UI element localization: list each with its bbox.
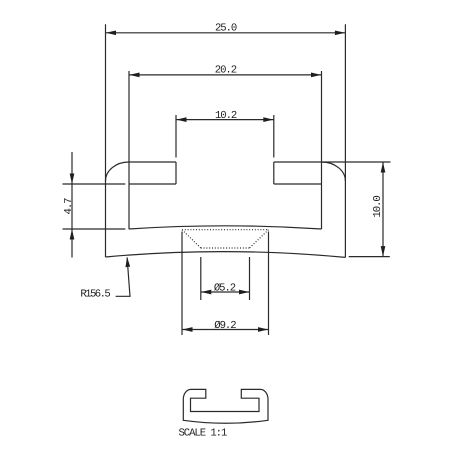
dimension 4.7 line (71, 152, 73, 258)
profile top-left corner arc (106, 162, 129, 181)
arrowhead 25.0 right (335, 30, 345, 35)
profile left outer edge with 25.0 extension line (105, 24, 107, 257)
profile bottom face arc R156.5 (106, 252, 346, 258)
hidden hole top edge (diameter 9.2) dotted (182, 229, 269, 231)
dimension 9.2 extension line left (181, 232, 183, 336)
arrowhead 10.2 left (176, 117, 186, 122)
arrowhead 10.2 right (263, 117, 273, 122)
dimension 20.2 extension line left (128, 71, 130, 184)
profile right lip vertical (273, 162, 275, 184)
svg-text:Ø9.2: Ø9.2 (214, 320, 236, 332)
dimension 10.2 extension line right (273, 115, 275, 158)
dimension 10.2 extension line left (175, 115, 177, 158)
arrowhead 9.2 left (182, 327, 192, 332)
dimension 10.0 line (382, 162, 384, 257)
hidden countersink cone right dotted (250, 230, 269, 248)
dimension 5.2 extension line left (200, 257, 202, 300)
profile top edge left wing (129, 161, 176, 163)
svg-text:4.7: 4.7 (63, 198, 75, 215)
arrowhead R156.5 leader (pointing up at bottom arc) (125, 257, 130, 267)
svg-text:Ø5.2: Ø5.2 (214, 282, 236, 294)
profile top edge right wing extended right as 10.0 extension line (274, 161, 391, 163)
svg-text:R156.5: R156.5 (80, 288, 110, 300)
dimension 5.2 line (201, 291, 250, 293)
profile left lip vertical (175, 162, 177, 184)
dimension 20.2 line (129, 74, 322, 76)
arrowhead 9.2 right (258, 327, 268, 332)
profile top-right corner arc (322, 162, 346, 181)
dimension 10.0 extension line bottom (349, 256, 390, 258)
svg-text:25.0: 25.0 (215, 23, 237, 35)
arrowhead 20.2 left (129, 73, 139, 78)
hidden hole bottom edge (diameter 5.2) dotted (201, 247, 250, 249)
arrowhead 4.7 top (outside, pointing down) (70, 174, 75, 184)
arrowhead 25.0 left (106, 30, 116, 35)
dimension 4.7 extension line bottom (63, 228, 126, 230)
arrowhead 4.7 bottom (outside, pointing up) (70, 229, 75, 239)
svg-text:SCALE 1:1: SCALE 1:1 (179, 427, 227, 439)
dimension 10.2 line (176, 119, 274, 121)
radius leader line R156.5 (116, 258, 130, 297)
dimension 25.0 line (106, 32, 346, 34)
arrowhead 10.0 bottom (381, 246, 386, 256)
svg-text:20.2: 20.2 (215, 65, 237, 77)
arrowhead 20.2 right (311, 73, 321, 78)
profile slot left inner wall (128, 184, 130, 229)
dimension 9.2 line (182, 329, 269, 331)
dimension 4.7 extension line top (63, 183, 126, 185)
profile slot right inner wall (321, 184, 323, 229)
dimension 9.2 extension line right (268, 232, 270, 336)
dimension 20.2 extension line right (321, 71, 323, 184)
profile right outer edge with 25.0 extension line (344, 24, 346, 257)
dimension 5.2 extension line right (249, 257, 251, 300)
arrowhead 5.2 left (201, 290, 211, 295)
profile left undercut (129, 183, 176, 185)
svg-text:10.2: 10.2 (215, 110, 237, 122)
scale icon profile outline (183, 389, 268, 423)
profile slot floor arc (129, 226, 322, 229)
profile right undercut (274, 183, 322, 185)
svg-text:10.0: 10.0 (372, 196, 384, 218)
arrowhead 10.0 top (381, 162, 386, 172)
arrowhead 5.2 right (239, 290, 249, 295)
hidden countersink cone left dotted (182, 230, 201, 248)
